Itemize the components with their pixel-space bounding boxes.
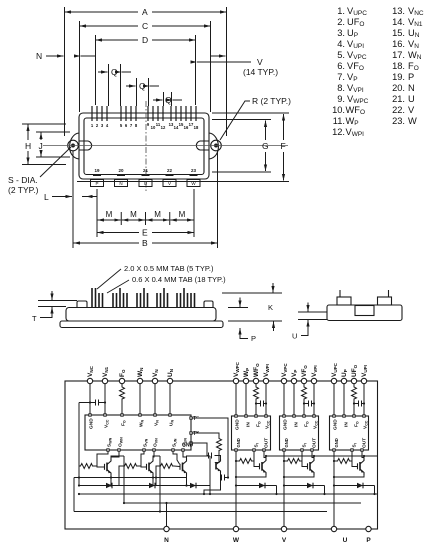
wire gate Q6 [352,461,358,467]
wire SI [351,451,353,461]
diode D5 [307,483,313,489]
svg-text:IN: IN [246,422,252,427]
schematic border [65,381,378,529]
capacitor C1 [96,400,99,406]
dim E line [97,232,139,234]
wire WN [139,384,141,414]
wire Q3 emitter [186,476,188,487]
bus C [74,511,327,513]
junction dot [303,402,305,404]
IGBT Q1 [105,459,112,476]
capacitor C5 wire [304,403,314,405]
svg-text:IN: IN [344,422,350,427]
S leader [40,147,71,177]
end view right pin [388,290,390,297]
svg-text:SI: SI [302,443,308,447]
svg-text:J: J [39,141,43,151]
wire SUN [173,451,180,464]
wire R9 to SI [301,460,302,462]
diode D6 [357,483,363,489]
wire R11 to SI [351,460,352,462]
terminal V [281,526,286,531]
svg-text:N: N [408,83,415,93]
junction dot [283,460,285,462]
svg-text:H: H [25,141,31,151]
svg-text:FO: FO [256,421,262,427]
wire V phase drop [283,451,285,526]
end view inner recess [355,306,374,316]
junction dot [110,476,112,478]
svg-text:V: V [257,57,263,67]
junction dot [110,484,112,486]
svg-text:8.: 8. [337,83,345,93]
svg-text:VNC: VNC [87,365,94,377]
svg-text:Q: Q [111,67,118,77]
dim N arrows [46,55,64,57]
junction dot [152,476,154,478]
wire D6 drop [374,486,376,495]
labels M M M M [106,210,186,219]
svg-text:WN: WN [137,368,144,377]
junction dot [89,401,91,403]
wire OUT [264,451,266,457]
svg-text:R (2 TYP.): R (2 TYP.) [252,96,291,106]
resistor R7 gate wire [236,460,238,462]
svg-text:IN: IN [294,422,300,427]
terminal U [331,526,336,531]
junction dot [78,484,80,486]
transistor Q7 [216,459,221,473]
wire N riser [166,503,168,526]
svg-text:16.: 16. [392,39,405,49]
right mounting ear [209,133,218,159]
left dimensions H J S L [22,124,98,197]
junction dot [265,402,267,404]
diode D1 [106,483,112,489]
svg-text:2.: 2. [337,17,345,27]
U1 pin squares [89,414,192,451]
resistor R11 [336,459,351,464]
diode D5 wire [284,485,325,487]
wire GND return left [78,403,80,486]
dim J line [40,133,42,141]
wire Q2 collector [153,456,160,459]
terminal labels rotated [87,361,368,377]
junction dot [265,455,267,457]
svg-text:OUT: OUT [362,438,368,448]
dim U [301,303,308,336]
IGBT Q2 [147,459,154,476]
svg-text:18: 18 [194,125,199,130]
G F ext lines [212,113,289,182]
terminal VN1 [102,378,107,383]
junction dot [333,460,335,462]
wire V out drop [159,456,161,512]
svg-text:Q: Q [139,81,146,91]
junction dot [283,484,285,486]
wire VN1 to Vcc pin [104,384,106,414]
end view body [327,305,402,321]
capacitor C2 [209,453,212,459]
wire SI [253,451,255,461]
svg-text:P: P [366,537,371,544]
terminal UP [341,378,346,383]
wire sense return [204,478,221,495]
junction dot [78,493,80,495]
svg-text:22.: 22. [392,105,405,115]
module body top view [68,113,222,182]
wire gate Q5 [302,461,308,467]
bottom dimensions M E B [73,151,218,248]
junction dot [313,455,315,457]
right ear notch [196,141,209,150]
capacitor C3 [222,475,225,481]
terminal FO [119,378,124,383]
wire D4 drop [276,486,278,495]
terminal VWPC [233,378,238,383]
wire R5 left hang [156,466,159,478]
svg-text:19.: 19. [392,72,405,82]
svg-text:VUPI: VUPI [361,365,368,377]
svg-text:W: W [408,116,417,126]
wire VFO lower [303,401,305,415]
svg-text:V: V [282,537,287,544]
wire left N drop [73,478,75,512]
svg-text:FO: FO [354,421,360,427]
dim A extension lines [65,7,227,136]
svg-text:B: B [142,238,148,248]
svg-text:K: K [268,303,273,312]
svg-text:G: G [262,141,269,151]
junction dot [123,502,125,504]
dim A [65,11,139,13]
wire VWPI [265,384,267,415]
svg-text:P: P [251,334,256,343]
wire W phase drop [235,451,237,526]
svg-text:VN1: VN1 [102,366,109,377]
bus A [78,493,378,495]
wire TR lower [215,452,220,456]
svg-text:VUPC: VUPC [331,362,338,377]
dim M line with arrows [98,219,121,221]
IGBT Q4 [260,458,267,475]
power tabs P N U V W [91,180,201,187]
rail collectors [266,455,378,457]
svg-text:VP: VP [291,370,298,377]
junction dot [313,402,315,404]
junction dot [255,402,257,404]
junction dot [165,502,167,504]
top pins group2 [121,106,136,121]
tab note leaders [97,269,129,293]
svg-text:VVPI: VVPI [311,365,318,377]
svg-text:VWPC: VWPC [233,361,240,377]
terminal VVPC [281,378,286,383]
svg-text:FO: FO [304,421,310,427]
dim N right-side arrow [211,55,226,57]
svg-text:SVN: SVN [143,438,149,447]
svg-text:V: V [408,105,415,115]
wire Q1 emitter [110,476,112,487]
diode D3 wire [156,485,210,487]
svg-text:SWN: SWN [107,437,113,447]
svg-text:VFO: VFO [301,365,308,377]
resistor R7 [238,459,253,464]
side view pins [92,288,195,307]
dim Q1 lines [109,64,121,106]
svg-text:OUT: OUT [264,438,270,448]
svg-text:15.: 15. [392,28,405,38]
svg-text:M: M [179,210,186,219]
vertical centerline [145,101,147,191]
svg-text:VCC: VCC [104,419,110,428]
svg-text:SI: SI [352,443,358,447]
svg-text:23.: 23. [392,116,405,126]
svg-text:U: U [408,94,415,104]
capacitor C1 wire [79,402,105,404]
svg-text:T: T [32,314,37,323]
right boss [204,301,213,308]
wire D3 hang [155,478,157,486]
terminal N [164,526,169,531]
svg-text:UN: UN [167,369,174,377]
top pins group1 [92,106,107,121]
svg-text:13.: 13. [392,6,405,16]
wire OWN [111,451,119,457]
IGBT Q3 [180,459,187,476]
svg-text:N: N [164,537,169,544]
resistor R2 thermistor [217,437,222,452]
dim G [265,121,267,141]
svg-text:GND: GND [334,438,339,447]
junction dot [353,402,355,404]
wire Q5 collector [313,456,315,458]
wire D2 hang [118,478,120,486]
resistor R6 [254,386,259,401]
dim H ext lines [22,124,66,165]
dim Q3 lines [164,92,172,106]
U4 pin labels [333,419,369,448]
svg-text:Q: Q [165,95,172,105]
capacitor C4 [261,401,264,407]
svg-text:18.: 18. [392,61,405,71]
diode D4 wire [236,485,277,487]
dim Q2 lines [137,78,149,106]
wire Q2 emitter [152,476,154,487]
svg-text:VN: VN [154,420,160,426]
svg-text:U: U [292,332,297,341]
wire WFO lower [255,401,257,415]
wire U phase drop [333,451,335,526]
diode D2 wire [119,485,160,487]
svg-text:GND: GND [235,419,241,430]
wire gate Q2 [138,466,147,467]
IGBT Q5 [308,458,315,475]
terminal WFO [253,378,258,383]
svg-text:GND: GND [89,418,95,429]
wire FO lower [121,401,123,414]
svg-text:OWN: OWN [118,437,124,447]
svg-text:D: D [142,35,148,45]
wire Q1 collector [111,456,124,459]
bottom pin numbers 19-23 [94,168,196,173]
side case body [66,308,216,322]
case outline [79,113,209,179]
dim B line [74,242,140,244]
junction dot [235,460,237,462]
dim J ext lines [36,132,70,157]
capacitor C6 [359,401,362,407]
junction dot [209,493,211,495]
svg-text:14.: 14. [392,17,405,27]
terminal VVPI [311,378,316,383]
wire base [215,456,219,463]
junction dot [227,476,229,478]
terminal UN [167,378,172,383]
U4 pin squares [333,415,365,451]
dim T [38,291,77,318]
right mounting hole [211,140,222,151]
pin numbers 9-18 staggered [147,122,199,130]
wire VFO upper [303,384,305,386]
wire FO upper [121,384,123,386]
dim H line [27,125,29,141]
svg-text:OVN: OVN [153,438,159,447]
svg-text:(2 TYP.): (2 TYP.) [8,185,39,195]
wire SI [301,451,303,461]
U3 pin labels [283,419,319,448]
side baseplate [60,321,223,328]
wire gate Q3 [174,465,180,468]
svg-text:UP: UP [341,369,348,377]
wire VNC to GND pin [89,384,91,414]
svg-text:P: P [95,181,98,186]
wire VVPI [313,384,315,415]
wire UFO lower [353,401,355,415]
svg-text:9.: 9. [337,94,345,104]
junction dot [78,476,80,478]
wire Q6 emitter [334,475,364,477]
wire UP [343,384,345,415]
terminal UFO [351,378,356,383]
right hole center dot [215,144,218,147]
wire SWN [97,451,108,466]
resistor R3 gate [79,464,94,469]
diode D6 wire [334,485,375,487]
svg-text:UFO: UFO [351,364,358,377]
svg-text:V: V [168,181,171,186]
diode D4 [259,483,265,489]
dim D extension lines [96,35,196,105]
junction dot [235,476,237,478]
left boss [77,301,87,308]
svg-text:VVPC: VVPC [281,363,288,377]
svg-text:10.: 10. [332,105,345,115]
wire OUN [183,451,187,457]
terminal VNC [87,378,92,383]
svg-text:21.: 21. [392,94,405,104]
wire Q7 collector [219,456,221,460]
svg-text:SUN: SUN [172,438,178,447]
svg-text:M: M [106,210,113,219]
svg-text:6.: 6. [337,61,345,71]
svg-text:(14 TYP.): (14 TYP.) [243,67,278,77]
svg-text:17.: 17. [392,50,405,60]
left mounting hole [68,140,79,151]
svg-text:GND: GND [333,419,339,430]
junction dot [333,484,335,486]
terminal WN [137,378,142,383]
svg-text:A: A [142,7,148,17]
bus B [124,502,361,504]
svg-text:GND: GND [284,438,289,447]
wire UN [169,384,171,414]
diode D2 [149,483,155,489]
svg-text:WP: WP [243,368,250,377]
svg-text:FO: FO [121,420,127,426]
resistor R9 [286,459,301,464]
dim F [283,114,285,140]
capacitor C4 wire [256,403,266,405]
resistor R10 [352,386,357,401]
terminal P [366,526,371,531]
horizontal centerline [43,145,288,147]
svg-text:3.: 3. [337,28,345,38]
top pins group3 [148,106,163,121]
svg-text:23: 23 [191,168,197,173]
svg-text:0.6 X 0.4 MM TAB (18 TYP.): 0.6 X 0.4 MM TAB (18 TYP.) [132,275,226,284]
junction dot [275,493,277,495]
svg-text:7.: 7. [337,72,345,82]
svg-text:11.: 11. [333,116,345,126]
svg-text:2.0 X 0.5 MM TAB (5 TYP.): 2.0 X 0.5 MM TAB (5 TYP.) [124,264,214,273]
terminal VFO [301,378,306,383]
svg-text:VN: VN [152,369,159,377]
junction dot [235,484,237,486]
left mounting ear [70,133,79,159]
dim L arrows [52,196,72,198]
baseplate lip [77,181,212,183]
svg-text:P: P [408,72,414,82]
svg-text:F: F [281,141,286,151]
wire D5 drop [324,486,326,495]
svg-text:20.: 20. [392,83,405,93]
wire Q4 emitter [236,475,266,477]
svg-text:FO: FO [119,369,126,377]
dim C extension lines [80,21,211,112]
junction dot [203,493,205,495]
wire Q4 collector [265,456,267,458]
junction dot [363,455,365,457]
diode D3 [190,483,196,489]
svg-text:S - DIA.: S - DIA. [8,175,38,185]
svg-text:20: 20 [118,168,124,173]
diode D1 wire [79,485,124,487]
left ear notch [79,141,92,150]
wire VN [154,384,156,414]
terminal VUPI [361,378,366,383]
wire OUT [362,451,364,457]
terminal VWPI [263,378,268,383]
wire OUT [312,451,314,457]
wire W out drop [123,456,125,503]
wire R4 left hang [119,466,123,478]
junction dot [104,401,106,403]
svg-text:M: M [130,210,137,219]
dim D [96,39,139,41]
resistor R8 [302,386,307,401]
U1 top pin labels [89,418,175,429]
